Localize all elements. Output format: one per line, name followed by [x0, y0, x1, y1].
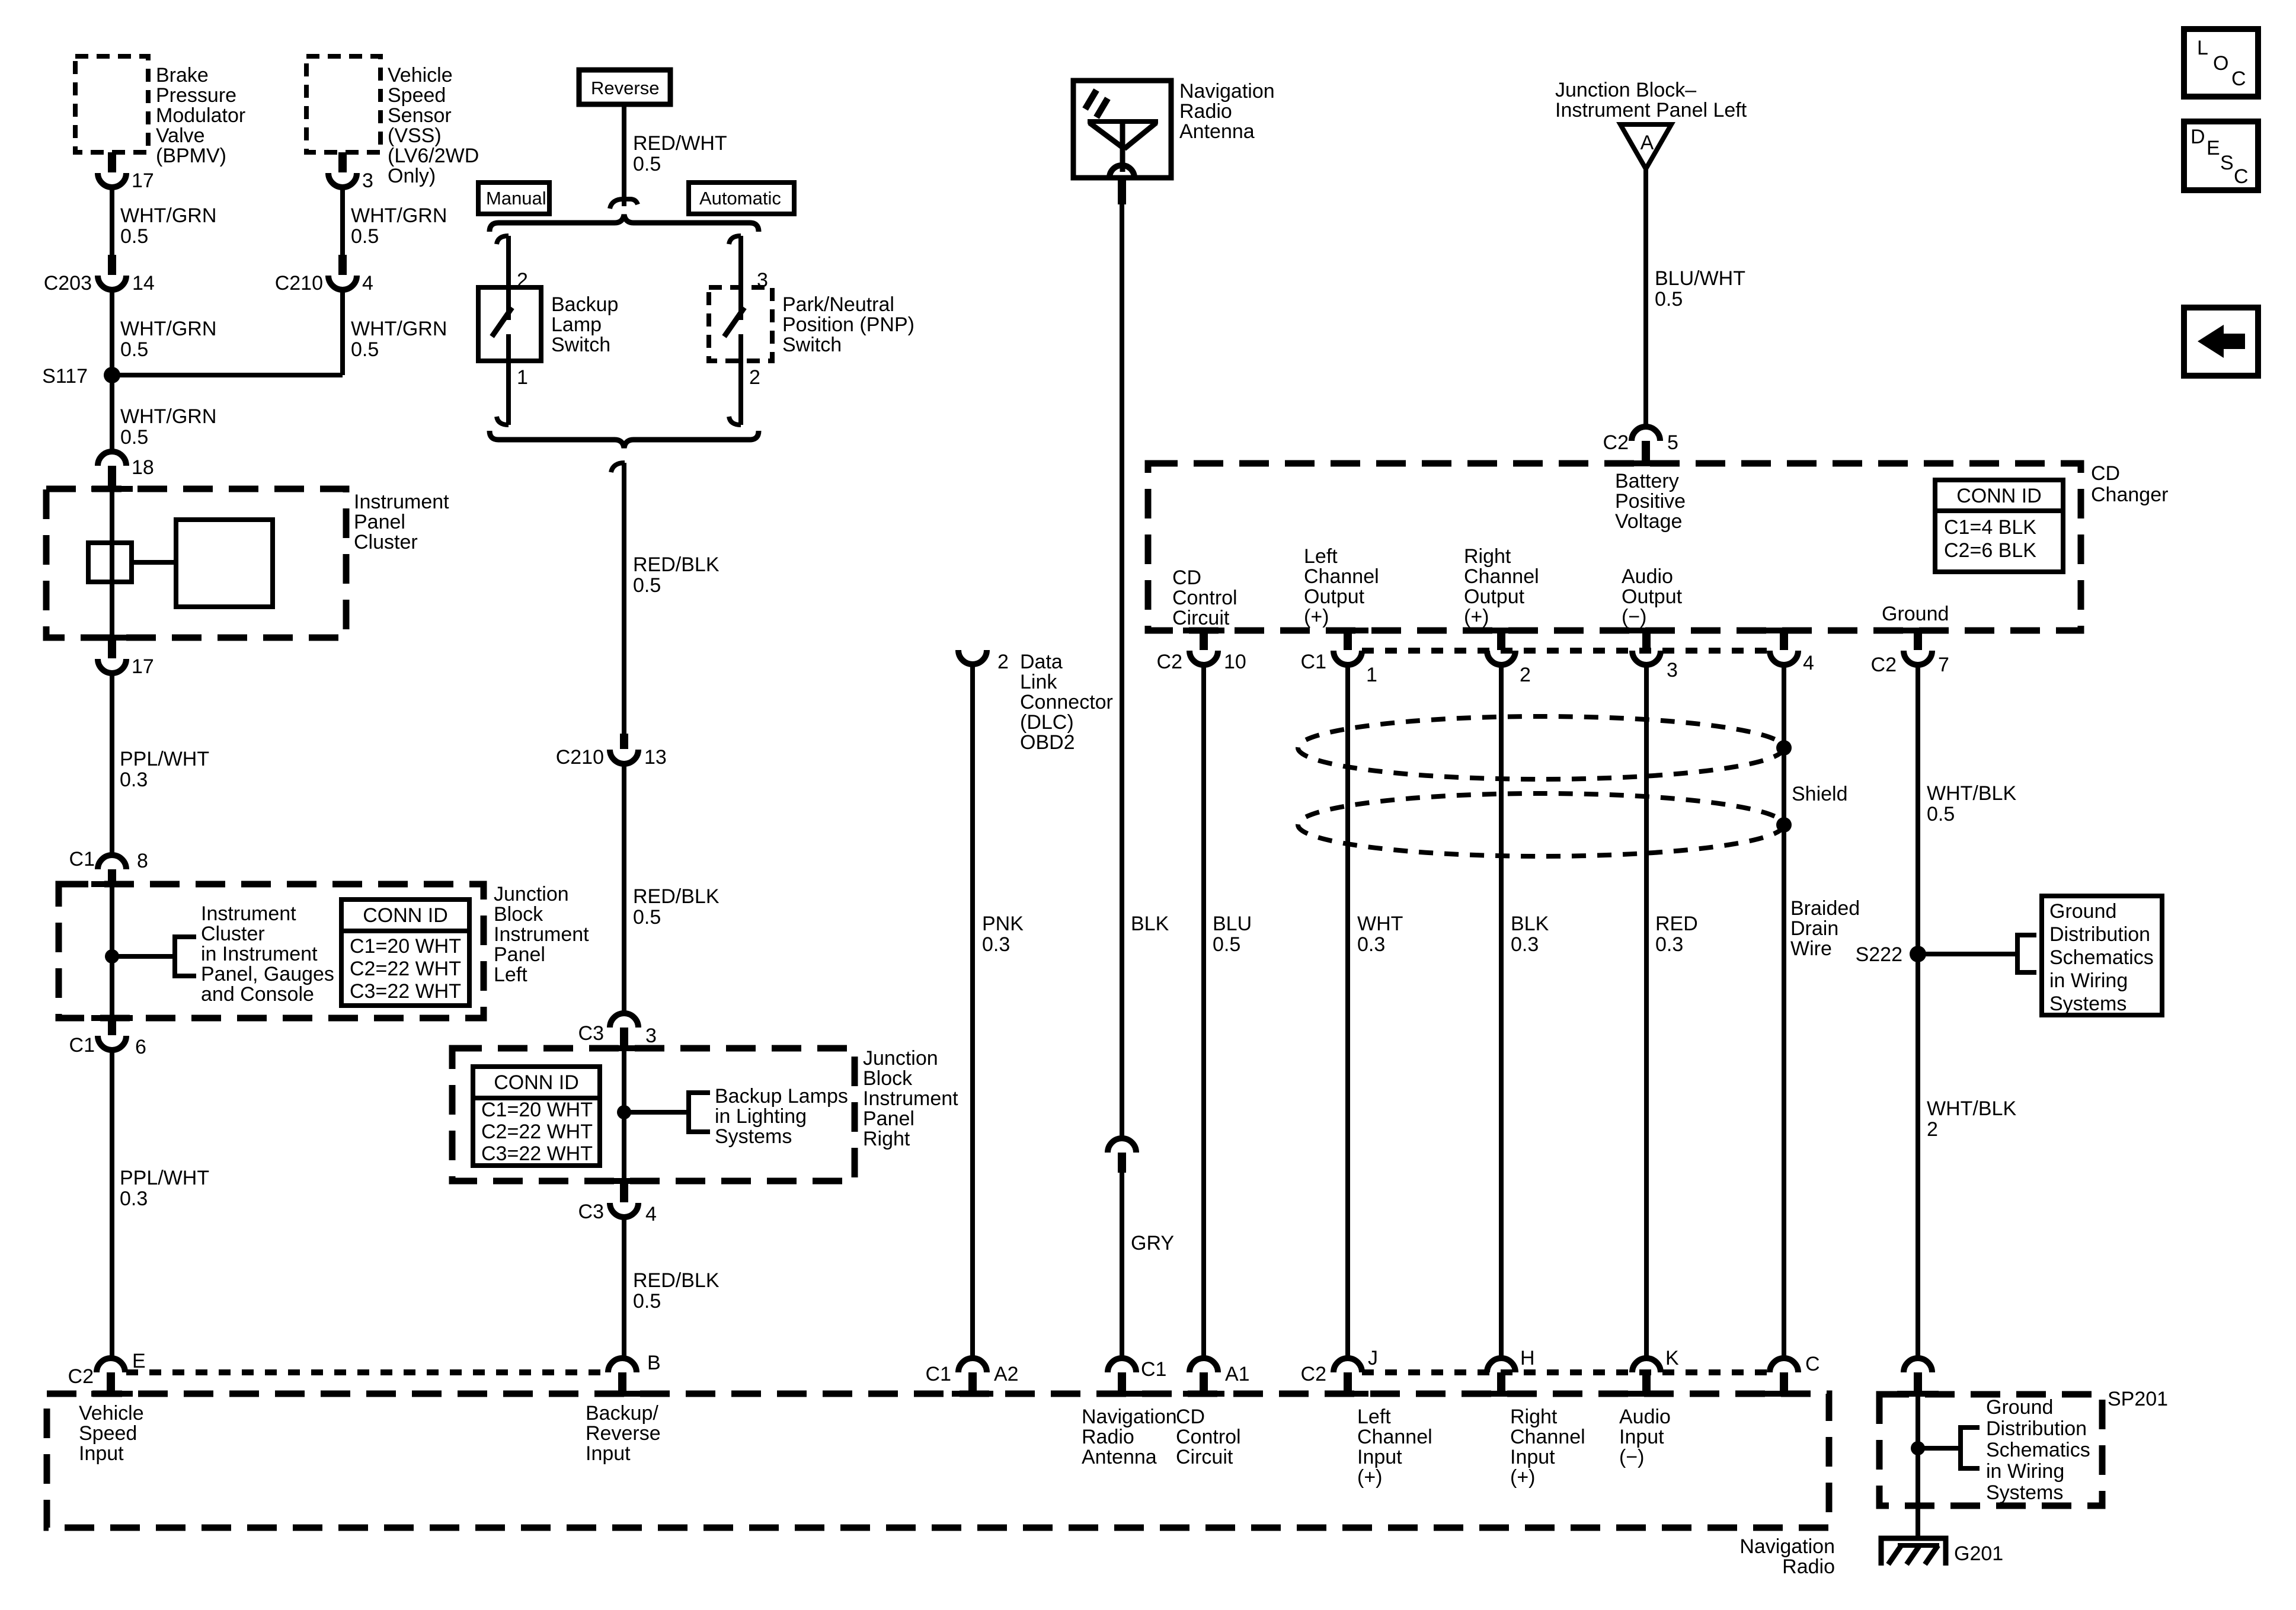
wire WHT/GRN 0.5 C210 to S117 — [343, 290, 447, 375]
svg-text:Radio: Radio — [1082, 1426, 1134, 1448]
svg-text:K: K — [1665, 1347, 1679, 1369]
wire PPL/WHT 0.3 — [112, 673, 209, 855]
wire through junction block right — [622, 1048, 626, 1181]
svg-text:Block: Block — [863, 1067, 913, 1090]
dotted harness line pins 1 to 4 — [1362, 648, 1771, 654]
connector pin H — [1487, 1347, 1535, 1394]
wire end hook above brace — [610, 199, 638, 209]
wire WHT/BLK 0.5 — [1918, 665, 2016, 954]
svg-text:Junction Block–: Junction Block– — [1555, 79, 1696, 101]
svg-text:C2=6 BLK: C2=6 BLK — [1944, 539, 2036, 562]
svg-text:C: C — [2231, 68, 2246, 90]
svg-text:0.5: 0.5 — [1655, 288, 1683, 311]
svg-text:Instrument: Instrument — [354, 491, 449, 513]
link wire — [132, 560, 176, 565]
svg-text:Channel: Channel — [1464, 565, 1539, 588]
svg-text:Valve: Valve — [156, 124, 205, 147]
Left Channel Input label — [1357, 1406, 1432, 1489]
connector pin 17 below cluster — [98, 638, 154, 678]
connector C1 pin 1 — [1301, 630, 1377, 686]
wire to backup lamps bracket — [624, 1110, 689, 1115]
svg-text:CONN ID: CONN ID — [1956, 485, 2042, 507]
junction node in block left — [105, 949, 119, 964]
svg-text:Lamp: Lamp — [551, 313, 602, 336]
ground symbol G201 — [1881, 1538, 2003, 1566]
svg-text:in Wiring: in Wiring — [2049, 969, 2128, 992]
svg-text:4: 4 — [645, 1203, 657, 1225]
svg-text:B: B — [647, 1352, 661, 1374]
connector A1 — [1189, 1358, 1250, 1394]
svg-text:CONN ID: CONN ID — [494, 1071, 579, 1094]
wire RED/BLK 0.5 to navigation radio — [624, 1217, 720, 1359]
svg-text:Junction: Junction — [494, 883, 569, 905]
svg-text:Wire: Wire — [1790, 937, 1832, 960]
svg-text:C3=22 WHT: C3=22 WHT — [481, 1142, 593, 1165]
svg-text:Schematics: Schematics — [1986, 1439, 2090, 1461]
svg-text:4: 4 — [1803, 652, 1814, 674]
svg-text:0.5: 0.5 — [120, 338, 148, 361]
svg-text:(+): (+) — [1510, 1466, 1536, 1489]
svg-text:A1: A1 — [1225, 1363, 1250, 1385]
connector C2 pin 7 — [1871, 630, 1949, 676]
connector C1 pin 6 — [69, 1018, 146, 1058]
svg-text:(BPMV): (BPMV) — [156, 145, 226, 167]
svg-text:Panel: Panel — [494, 943, 545, 966]
svg-text:C2: C2 — [1157, 651, 1182, 673]
connector C2 pin J — [1301, 1347, 1378, 1394]
svg-text:Audio: Audio — [1619, 1406, 1671, 1428]
manual branch hook — [497, 236, 509, 244]
svg-text:Panel: Panel — [863, 1108, 914, 1130]
joined wire hook below brace — [611, 463, 625, 472]
svg-text:C1: C1 — [1141, 1358, 1166, 1381]
Automatic label box — [689, 183, 794, 214]
backup lamp switch lever — [492, 308, 512, 337]
svg-text:Input: Input — [1619, 1426, 1664, 1448]
connector C2 pin E — [68, 1350, 146, 1394]
braided drain wire — [1784, 665, 1860, 1359]
connector C3 pin 3 — [578, 1013, 657, 1049]
wire PPL/WHT 0.3 to navigation radio — [112, 1050, 209, 1359]
svg-text:(LV6/2WD: (LV6/2WD — [388, 145, 479, 167]
svg-text:14: 14 — [132, 272, 155, 295]
automatic branch hook — [729, 236, 741, 244]
svg-text:WHT/GRN: WHT/GRN — [351, 318, 447, 340]
svg-text:Ground: Ground — [2049, 900, 2116, 923]
top harness brace — [490, 215, 759, 232]
svg-text:7: 7 — [1938, 654, 1949, 676]
svg-text:Drain: Drain — [1790, 917, 1838, 940]
splice S117 — [42, 365, 120, 388]
svg-text:RED: RED — [1655, 913, 1698, 935]
svg-text:2: 2 — [1927, 1118, 1938, 1141]
svg-text:in Instrument: in Instrument — [201, 943, 318, 965]
svg-text:Switch: Switch — [782, 334, 842, 356]
svg-text:Radio: Radio — [1179, 100, 1232, 123]
connector pin 3 — [1632, 630, 1678, 681]
svg-text:0.3: 0.3 — [1511, 933, 1539, 956]
svg-text:C3: C3 — [578, 1022, 604, 1045]
automatic branch lower wire — [738, 361, 743, 425]
wire RED/BLK 0.5 to C210 — [624, 463, 720, 734]
svg-text:(VSS): (VSS) — [388, 124, 442, 147]
svg-text:Backup Lamps: Backup Lamps — [715, 1085, 848, 1108]
shield node lower — [1776, 817, 1792, 833]
Right Channel Output label — [1464, 545, 1539, 628]
connector pin C — [1770, 1353, 1820, 1394]
svg-text:and Console: and Console — [201, 983, 314, 1006]
svg-text:in Wiring: in Wiring — [1986, 1460, 2064, 1483]
svg-text:A: A — [1641, 132, 1654, 154]
svg-text:Switch: Switch — [551, 334, 610, 356]
wire through SP201 — [1916, 1394, 1920, 1506]
svg-text:Input: Input — [586, 1442, 631, 1465]
svg-text:BLK: BLK — [1511, 913, 1549, 935]
svg-text:GRY: GRY — [1131, 1232, 1174, 1254]
connector C2 pin 5 — [1603, 427, 1678, 463]
svg-text:2: 2 — [1520, 664, 1531, 686]
svg-text:0.5: 0.5 — [120, 225, 148, 248]
svg-text:17: 17 — [132, 169, 154, 192]
connector C1 at navigation radio antenna input — [1108, 1358, 1166, 1394]
svg-text:Speed: Speed — [388, 84, 446, 107]
svg-text:Junction: Junction — [863, 1047, 938, 1070]
svg-text:A2: A2 — [994, 1363, 1019, 1385]
wire to SP201 bracket — [1918, 1446, 1961, 1451]
junction node in block right — [617, 1105, 631, 1119]
svg-text:0.3: 0.3 — [120, 769, 148, 791]
svg-text:CD: CD — [1176, 1406, 1205, 1428]
svg-text:3: 3 — [1667, 659, 1678, 681]
svg-text:C2: C2 — [1301, 1363, 1326, 1385]
dotted harness line J to C — [1362, 1369, 1770, 1375]
svg-text:Reverse: Reverse — [591, 78, 659, 98]
junction block triangle A — [1620, 124, 1671, 169]
svg-text:Cluster: Cluster — [201, 923, 265, 945]
manual branch wire — [506, 236, 511, 320]
svg-text:6: 6 — [135, 1036, 146, 1058]
svg-text:0.3: 0.3 — [1357, 933, 1385, 956]
svg-text:Panel: Panel — [354, 511, 405, 533]
svg-text:Data: Data — [1020, 651, 1063, 673]
connector C203 pin 14 — [44, 255, 155, 295]
svg-text:Channel: Channel — [1357, 1426, 1432, 1448]
svg-text:2: 2 — [997, 651, 1009, 673]
wire inside cluster — [110, 489, 114, 638]
svg-text:CD: CD — [2091, 462, 2120, 485]
svg-text:BLU/WHT: BLU/WHT — [1655, 267, 1745, 290]
wire WHT/GRN 0.5 VSS to C210 — [343, 187, 447, 255]
CONN ID table (CD changer) — [1935, 480, 2063, 572]
svg-text:G201: G201 — [1954, 1542, 2003, 1565]
svg-text:WHT: WHT — [1357, 913, 1403, 935]
svg-text:Systems: Systems — [2049, 993, 2126, 1015]
bracket ground distribution — [2017, 935, 2036, 972]
svg-text:RED/BLK: RED/BLK — [633, 885, 720, 908]
svg-text:S: S — [2220, 152, 2234, 174]
svg-text:Instrument Panel Left: Instrument Panel Left — [1555, 99, 1747, 121]
Brake Pressure Modulator Valve (BPMV) box — [75, 56, 245, 167]
svg-text:0.5: 0.5 — [1213, 933, 1240, 956]
bracket Instrument Cluster — [175, 902, 334, 1006]
svg-text:C2: C2 — [68, 1365, 94, 1388]
svg-text:Instrument: Instrument — [201, 902, 296, 925]
svg-text:Control: Control — [1172, 587, 1237, 609]
svg-text:0.5: 0.5 — [120, 426, 148, 449]
dotted harness line E to B — [126, 1369, 608, 1375]
svg-text:C3=22 WHT: C3=22 WHT — [350, 980, 461, 1003]
wire WHT/GRN 0.5 C203 to S117 — [112, 290, 216, 375]
shield ellipse upper — [1298, 716, 1784, 779]
backup lamp switch lower contact — [506, 334, 511, 361]
svg-text:C1=4 BLK: C1=4 BLK — [1944, 516, 2036, 539]
svg-text:0.3: 0.3 — [1655, 933, 1683, 956]
svg-text:0.5: 0.5 — [351, 225, 379, 248]
svg-text:Output: Output — [1304, 585, 1365, 608]
CONN ID table (junction block left) — [341, 900, 469, 1006]
svg-text:J: J — [1368, 1347, 1378, 1369]
automatic branch wire — [738, 236, 743, 320]
CD Control Circuit input label — [1176, 1406, 1241, 1468]
wire from S117 to VSS branch — [112, 373, 343, 377]
svg-text:Backup/: Backup/ — [586, 1402, 658, 1425]
Battery Positive Voltage label — [1615, 470, 1686, 533]
svg-text:Block: Block — [494, 903, 543, 926]
Navigation Radio caption — [1739, 1535, 1835, 1578]
svg-text:5: 5 — [1667, 431, 1678, 454]
PNP lower contact — [738, 334, 743, 361]
svg-text:0.3: 0.3 — [120, 1188, 148, 1210]
connector pin K — [1632, 1347, 1679, 1394]
CD Control Circuit label — [1172, 566, 1237, 629]
svg-text:Park/Neutral: Park/Neutral — [782, 293, 894, 316]
svg-text:CD: CD — [1172, 566, 1201, 589]
DESC legend box — [2184, 121, 2258, 190]
svg-text:WHT/GRN: WHT/GRN — [120, 405, 216, 428]
svg-text:Link: Link — [1020, 671, 1057, 693]
Park/Neutral Position (PNP) Switch box — [709, 287, 914, 361]
svg-text:Channel: Channel — [1304, 565, 1379, 588]
svg-text:PNK: PNK — [982, 913, 1024, 935]
svg-text:Audio: Audio — [1622, 565, 1673, 588]
svg-text:Control: Control — [1176, 1426, 1241, 1448]
svg-text:Instrument: Instrument — [494, 923, 589, 946]
wire BLU/WHT 0.5 — [1646, 169, 1745, 427]
svg-text:Ground: Ground — [1882, 603, 1949, 625]
svg-text:C1: C1 — [926, 1363, 951, 1385]
cluster sensor square — [88, 543, 132, 582]
DLC connector pin 2 — [958, 650, 1113, 754]
svg-text:0.3: 0.3 — [982, 933, 1010, 956]
svg-text:C1: C1 — [69, 848, 95, 870]
svg-text:Manual: Manual — [486, 188, 546, 209]
Navigation Radio box — [47, 1394, 1829, 1528]
svg-text:C1: C1 — [1301, 651, 1326, 673]
svg-text:Left: Left — [1304, 545, 1338, 568]
svg-text:Connector: Connector — [1020, 691, 1113, 713]
svg-text:Speed: Speed — [79, 1422, 137, 1445]
wire WHT 0.3 — [1348, 665, 1403, 1359]
svg-text:13: 13 — [644, 746, 667, 769]
svg-text:(+): (+) — [1304, 606, 1329, 628]
svg-text:0.5: 0.5 — [633, 1290, 661, 1313]
svg-text:BLK: BLK — [1131, 913, 1169, 935]
connector C210 pin 13 — [556, 734, 667, 769]
svg-text:Instrument: Instrument — [863, 1087, 958, 1110]
svg-text:18: 18 — [132, 456, 154, 479]
wire RED/WHT 0.5 — [624, 104, 727, 206]
automatic branch lower hook — [729, 417, 741, 425]
svg-text:WHT/GRN: WHT/GRN — [120, 318, 216, 340]
svg-text:Brake: Brake — [156, 64, 209, 87]
svg-text:CONN ID: CONN ID — [363, 904, 448, 927]
svg-text:C2=22 WHT: C2=22 WHT — [350, 958, 461, 980]
antenna coax terminal — [1118, 178, 1126, 204]
svg-text:0.5: 0.5 — [1927, 803, 1955, 825]
svg-text:Braided: Braided — [1790, 897, 1860, 920]
connector C2 pin 10 — [1157, 630, 1246, 673]
shield ellipse lower — [1298, 793, 1784, 856]
svg-text:Shield: Shield — [1792, 783, 1848, 805]
svg-text:Navigation: Navigation — [1179, 80, 1275, 103]
svg-text:WHT/BLK: WHT/BLK — [1927, 1097, 2016, 1120]
svg-text:C1=20 WHT: C1=20 WHT — [350, 935, 461, 958]
wire PNK 0.3 — [973, 664, 1024, 1359]
shield node upper — [1776, 740, 1792, 756]
Vehicle Speed Sensor (VSS) box — [306, 56, 479, 187]
connector pin 4 — [1770, 630, 1814, 674]
back arrow box — [2184, 308, 2258, 376]
Backup/Reverse Input label — [586, 1402, 661, 1465]
Right Channel Input label — [1510, 1406, 1585, 1489]
splice S222 — [1856, 943, 1926, 966]
svg-text:4: 4 — [362, 272, 373, 295]
svg-text:Vehicle: Vehicle — [388, 64, 453, 87]
svg-text:Right: Right — [1464, 545, 1511, 568]
connector pin 18 at Instrument Panel Cluster — [98, 452, 154, 489]
svg-text:Input: Input — [79, 1442, 124, 1465]
connector pin 2 — [1487, 630, 1531, 686]
svg-text:Radio: Radio — [1782, 1555, 1835, 1578]
svg-text:Voltage: Voltage — [1615, 510, 1682, 533]
Instrument Panel Cluster box — [46, 489, 449, 638]
Manual label box — [478, 183, 549, 214]
connector C3 pin 4 — [578, 1181, 657, 1225]
svg-text:Automatic: Automatic — [699, 188, 781, 209]
svg-text:C3: C3 — [578, 1201, 604, 1223]
Ground Distribution Schematics box — [2042, 896, 2162, 1015]
svg-text:C: C — [2234, 165, 2249, 188]
SP201 splice pack box — [1879, 1388, 2168, 1506]
svg-text:Navigation: Navigation — [1739, 1535, 1835, 1558]
svg-text:O: O — [2213, 52, 2228, 75]
svg-text:Schematics: Schematics — [2049, 946, 2154, 969]
wire to bracket — [112, 954, 175, 959]
svg-text:Input: Input — [1510, 1446, 1555, 1468]
svg-text:Input: Input — [1357, 1446, 1402, 1468]
svg-text:0.5: 0.5 — [351, 338, 379, 361]
Navigation Radio Antenna input label — [1082, 1406, 1177, 1468]
svg-text:Output: Output — [1622, 585, 1683, 608]
svg-text:1: 1 — [1366, 664, 1377, 686]
svg-text:Vehicle: Vehicle — [79, 1402, 144, 1425]
wire through junction block left — [110, 884, 114, 1020]
svg-text:RED/WHT: RED/WHT — [633, 132, 727, 155]
antenna symbol — [1088, 121, 1158, 178]
svg-text:Position (PNP): Position (PNP) — [782, 313, 914, 336]
svg-text:(DLC): (DLC) — [1020, 711, 1074, 734]
connector C1 pin 8 — [69, 848, 148, 885]
svg-text:RED/BLK: RED/BLK — [633, 1269, 720, 1292]
svg-text:S117: S117 — [42, 365, 88, 388]
Backup Lamp Switch box — [478, 287, 618, 361]
svg-text:Pressure: Pressure — [156, 84, 236, 107]
edge segments at connector crossings — [91, 463, 1939, 1394]
GRY wire — [1122, 1173, 1174, 1359]
svg-text:3: 3 — [362, 169, 373, 192]
BLK coax wire — [1122, 204, 1169, 1138]
antenna RF slashes — [1085, 90, 1108, 117]
svg-text:PPL/WHT: PPL/WHT — [120, 1167, 209, 1189]
PNP switch lever — [724, 308, 744, 337]
bracket SP201 ground distribution — [1961, 1396, 2090, 1504]
svg-text:(+): (+) — [1357, 1466, 1383, 1489]
wire WHT/GRN 0.5 BPMV to C203 — [112, 187, 216, 255]
wire BLK 0.3 — [1501, 665, 1549, 1359]
svg-text:D: D — [2191, 126, 2205, 148]
svg-text:L: L — [2197, 37, 2208, 59]
svg-text:E: E — [2207, 137, 2220, 159]
Vehicle Speed Input label — [79, 1402, 144, 1465]
svg-text:Circuit: Circuit — [1176, 1446, 1233, 1468]
svg-text:17: 17 — [132, 655, 154, 678]
svg-text:Channel: Channel — [1510, 1426, 1585, 1448]
manual branch lower hook — [497, 417, 509, 425]
connector at SP201 — [1904, 1358, 1932, 1394]
svg-text:Ground: Ground — [1986, 1396, 2053, 1419]
connector pin 3 at VSS — [328, 152, 373, 192]
wire RED 0.3 — [1646, 665, 1698, 1359]
svg-text:(−): (−) — [1619, 1446, 1645, 1468]
svg-text:H: H — [1520, 1347, 1535, 1369]
svg-text:E: E — [132, 1350, 146, 1372]
svg-text:2: 2 — [749, 366, 760, 389]
svg-text:RED/BLK: RED/BLK — [633, 553, 720, 576]
svg-text:0.5: 0.5 — [633, 574, 661, 597]
CONN ID table (junction block right) — [473, 1067, 600, 1166]
wire WHT/BLK 2 — [1918, 954, 2016, 1359]
cluster module square — [176, 520, 273, 607]
Reverse label box — [579, 70, 670, 104]
svg-text:C2: C2 — [1871, 654, 1897, 676]
svg-text:(+): (+) — [1464, 606, 1489, 628]
svg-text:C2: C2 — [1603, 431, 1629, 454]
connector C210 pin 4 — [275, 255, 373, 295]
svg-text:0.5: 0.5 — [633, 906, 661, 929]
Junction Block Instrument Panel Left triangle label — [1555, 79, 1747, 121]
svg-text:C210: C210 — [556, 746, 604, 769]
junction node SP201 — [1911, 1441, 1925, 1455]
Junction Block Instrument Panel Left box — [59, 883, 589, 1018]
svg-text:Reverse: Reverse — [586, 1422, 661, 1445]
svg-text:in Lighting: in Lighting — [715, 1105, 807, 1128]
svg-text:1: 1 — [517, 366, 528, 389]
svg-text:8: 8 — [137, 850, 148, 872]
svg-text:Distribution: Distribution — [1986, 1417, 2087, 1440]
svg-text:0.5: 0.5 — [633, 153, 661, 175]
connector pin 17 at BPMV — [98, 152, 154, 192]
svg-text:C: C — [1805, 1353, 1820, 1375]
